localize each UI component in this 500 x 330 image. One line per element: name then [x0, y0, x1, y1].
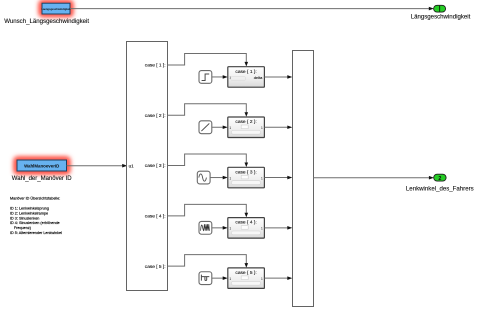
wire case subsystem 2 -> merge input 2 [264, 125, 296, 129]
wire case subsystem 1 -> merge input 1 [264, 75, 296, 79]
action subsystem case {5} [228, 268, 265, 289]
wire case[5] -> action port of case subsystem 5 [168, 255, 249, 268]
action subsystem case {4} [228, 218, 265, 239]
sine wave source block row 3 [197, 171, 210, 184]
svg-text:1: 1 [261, 126, 263, 130]
svg-text:Wahl_der_Manöver ID: Wahl_der_Manöver ID [12, 176, 72, 182]
svg-text:1: 1 [229, 277, 231, 281]
wire In2 -> u1 of switch-case [67, 164, 128, 168]
switch-case block [127, 42, 168, 291]
inport In2 WahlManoeverID (selected, red glow) [14, 157, 71, 175]
svg-text:ID 4: Sinuslenken (erhöhende: ID 4: Sinuslenken (erhöhende [10, 221, 60, 225]
svg-text:ID 5: Alternierender Lenkwinke: ID 5: Alternierender Lenkwinkel [10, 231, 62, 235]
wire merge -> Out2 [313, 176, 434, 180]
svg-text:u1: u1 [129, 163, 135, 168]
chirp source block row 4 [199, 221, 212, 234]
wire chirp source -> case subsystem 4 input 1 [212, 226, 228, 230]
annotation: Manöver ID table [10, 197, 62, 235]
svg-text:WahlManoeverID: WahlManoeverID [24, 163, 59, 168]
svg-text:case { 2 }:: case { 2 }: [235, 119, 256, 125]
wire case subsystem 5 -> merge input 5 [264, 276, 296, 280]
svg-text:ID 2: Lenkwinkelrampe: ID 2: Lenkwinkelrampe [10, 211, 48, 215]
wire case subsystem 4 -> merge input 4 [264, 226, 296, 230]
outport Out1 (green oval, port 1) [434, 5, 446, 12]
svg-text:1: 1 [229, 227, 231, 231]
inport In1 Längsgeschwindigkeit (selected, red glow) [39, 0, 74, 17]
svg-text:case [ 4 ]:: case [ 4 ]: [145, 214, 166, 220]
wire case[2] -> action port of case subsystem 2 [168, 104, 249, 117]
wire case[4] -> action port of case subsystem 4 [168, 204, 249, 217]
svg-text:Wunsch_Längsgeschwindigkeit: Wunsch_Längsgeschwindigkeit [4, 18, 89, 25]
svg-text:ID 3: Sinuslenken: ID 3: Sinuslenken [10, 216, 39, 220]
svg-text:2: 2 [438, 176, 441, 182]
action subsystem case {2} [228, 117, 265, 138]
wire case[3] -> action port of case subsystem 3 [168, 154, 249, 167]
wire pulse source -> case subsystem 5 input 1 [212, 276, 228, 280]
svg-text:case [ 2 ]:: case [ 2 ]: [145, 113, 166, 119]
svg-text:case { 3 }:: case { 3 }: [235, 169, 256, 175]
svg-text:Frequenz): Frequenz) [14, 226, 32, 230]
step source block row 1 [199, 71, 212, 84]
wire sine wave source -> case subsystem 3 input 1 [210, 176, 228, 180]
svg-text:1: 1 [261, 176, 263, 180]
svg-text:case [ 5 ]:: case [ 5 ]: [145, 264, 166, 270]
svg-text:Manöver ID Übersichtstabelle:: Manöver ID Übersichtstabelle: [10, 197, 60, 201]
wire case subsystem 3 -> merge input 3 [264, 176, 296, 180]
svg-text:delta: delta [254, 75, 263, 80]
ramp source block row 2 [199, 121, 212, 134]
action subsystem case {1} [228, 67, 265, 88]
wire case[1] -> action port of case subsystem 1 [168, 53, 249, 66]
svg-text:case { 4 }:: case { 4 }: [235, 220, 256, 226]
svg-text:1: 1 [229, 176, 231, 180]
svg-text:ID 1: Lenkwinkelsprung: ID 1: Lenkwinkelsprung [10, 207, 49, 211]
wire step source -> case subsystem 1 input 1 [212, 75, 228, 79]
outport Out2 (green oval, port 2) [434, 174, 446, 182]
svg-text:Längsgeschwindigkeit: Längsgeschwindigkeit [411, 13, 471, 20]
action subsystem case {3} [228, 167, 265, 188]
svg-text:Laengsgeschwindigkeit: Laengsgeschwindigkeit [41, 7, 70, 11]
wire In1 -> Out1 [70, 7, 434, 11]
pulse source block row 5 [199, 272, 212, 285]
svg-text:1: 1 [261, 227, 263, 231]
merge block [293, 51, 314, 307]
svg-text:case { 5 }:: case { 5 }: [235, 270, 256, 276]
wire ramp source -> case subsystem 2 input 1 [212, 125, 228, 129]
svg-text:case [ 1 ]:: case [ 1 ]: [145, 63, 166, 69]
svg-text:1: 1 [229, 126, 231, 130]
svg-text:1: 1 [261, 277, 263, 281]
svg-text:case [ 3 ]:: case [ 3 ]: [145, 163, 166, 169]
svg-text:Lenkwinkel_des_Fahrers: Lenkwinkel_des_Fahrers [406, 186, 474, 193]
